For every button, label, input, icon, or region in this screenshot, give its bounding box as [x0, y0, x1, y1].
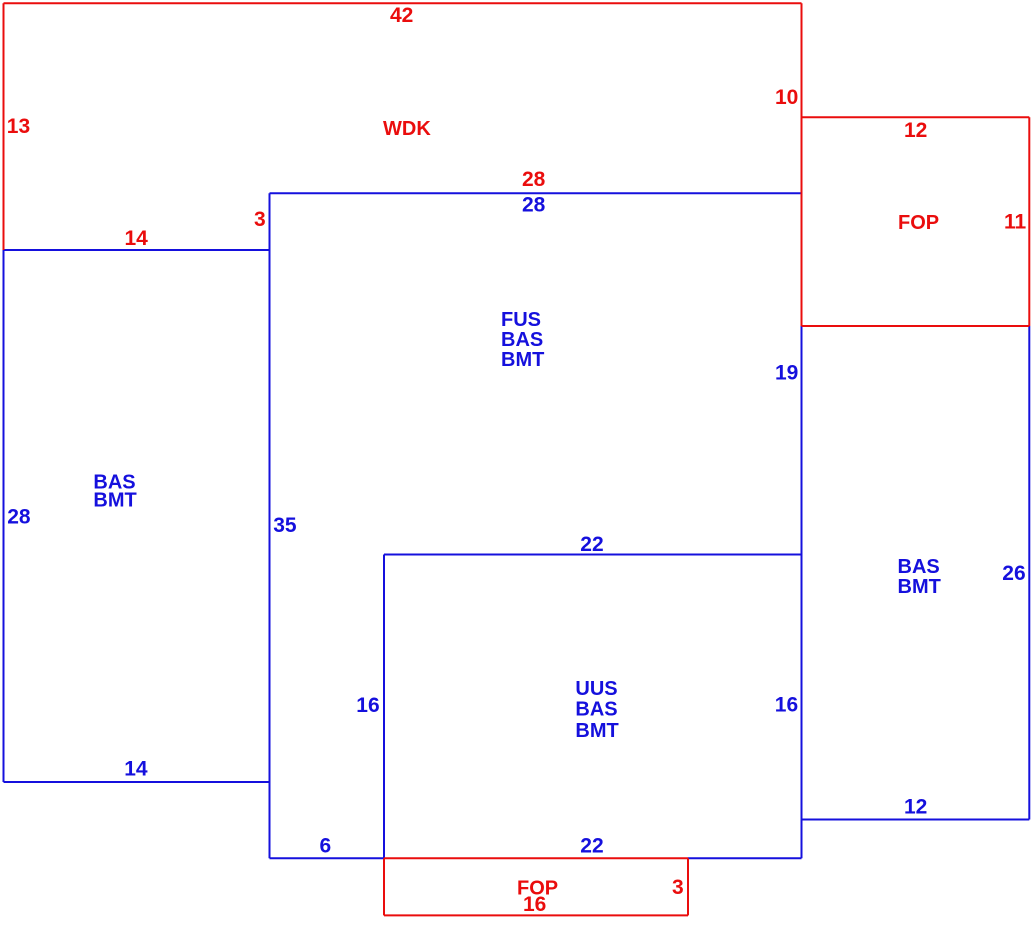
svg-text:6: 6 — [320, 834, 332, 857]
svg-text:16: 16 — [775, 693, 798, 716]
svg-text:42: 42 — [390, 4, 413, 27]
svg-text:10: 10 — [775, 86, 798, 109]
svg-text:UUS: UUS — [575, 678, 617, 700]
svg-text:BMT: BMT — [575, 720, 618, 742]
svg-text:22: 22 — [580, 533, 603, 556]
svg-text:16: 16 — [356, 694, 379, 717]
svg-text:26: 26 — [1002, 562, 1025, 585]
svg-text:13: 13 — [7, 115, 30, 138]
svg-text:BMT: BMT — [898, 576, 941, 598]
svg-text:3: 3 — [254, 208, 266, 231]
svg-text:FOP: FOP — [898, 212, 939, 234]
svg-text:22: 22 — [580, 834, 603, 857]
svg-text:BAS: BAS — [575, 699, 617, 721]
svg-text:12: 12 — [904, 795, 927, 818]
svg-text:BMT: BMT — [501, 349, 544, 371]
svg-text:14: 14 — [125, 227, 149, 250]
svg-text:WDK: WDK — [383, 118, 431, 140]
svg-text:14: 14 — [124, 757, 148, 780]
svg-text:11: 11 — [1004, 211, 1027, 234]
svg-text:BAS: BAS — [501, 329, 543, 351]
svg-text:19: 19 — [775, 361, 798, 384]
svg-text:12: 12 — [904, 119, 927, 142]
svg-text:3: 3 — [672, 876, 684, 899]
svg-text:35: 35 — [273, 514, 297, 537]
svg-text:28: 28 — [7, 505, 31, 528]
svg-text:FUS: FUS — [501, 309, 541, 331]
svg-text:BMT: BMT — [93, 489, 136, 511]
svg-text:28: 28 — [522, 168, 546, 191]
svg-text:16: 16 — [523, 893, 546, 916]
svg-text:28: 28 — [522, 193, 546, 216]
svg-text:BAS: BAS — [898, 556, 940, 578]
